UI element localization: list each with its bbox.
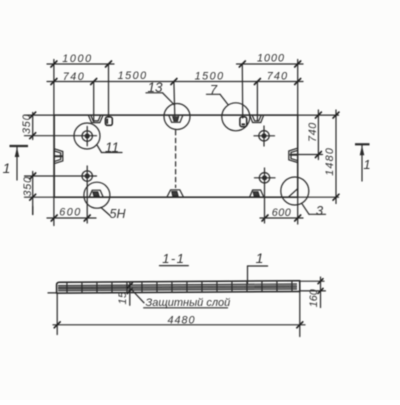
svg-text:350: 350 <box>21 114 33 134</box>
svg-text:11: 11 <box>105 140 119 155</box>
svg-text:740: 740 <box>267 71 289 83</box>
svg-text:7: 7 <box>210 82 218 97</box>
svg-text:4480: 4480 <box>167 314 195 326</box>
svg-text:740: 740 <box>63 71 86 83</box>
svg-text:600: 600 <box>272 207 292 219</box>
svg-text:15: 15 <box>117 291 129 305</box>
svg-text:600: 600 <box>59 206 82 218</box>
svg-text:1: 1 <box>256 250 264 266</box>
svg-text:1-1: 1-1 <box>162 251 185 266</box>
svg-text:1500: 1500 <box>118 70 148 82</box>
svg-text:160: 160 <box>308 289 320 307</box>
svg-text:Защитный слой: Защитный слой <box>146 297 231 309</box>
svg-text:350: 350 <box>22 176 34 196</box>
svg-text:3: 3 <box>316 203 324 218</box>
svg-text:1: 1 <box>3 160 11 176</box>
svg-text:5Н: 5Н <box>110 207 127 221</box>
svg-text:13: 13 <box>147 80 163 95</box>
svg-text:740: 740 <box>307 122 319 142</box>
svg-text:1: 1 <box>363 157 370 172</box>
svg-text:1000: 1000 <box>257 53 285 65</box>
svg-text:1480: 1480 <box>324 147 336 176</box>
svg-text:1500: 1500 <box>195 71 225 83</box>
svg-text:1000: 1000 <box>62 53 92 65</box>
